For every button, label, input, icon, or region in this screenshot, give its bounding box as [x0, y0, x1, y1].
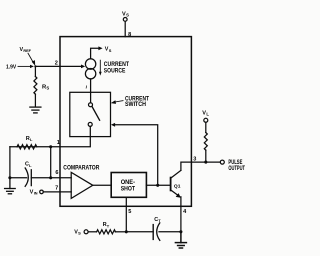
wire comparator to one-shot [93, 184, 111, 186]
wire left column RL to CL [9, 147, 11, 178]
svg-text:7: 7 [55, 185, 58, 191]
label CT [154, 217, 161, 223]
resistor RS [34, 66, 37, 106]
label RT [103, 222, 110, 228]
pin 7 [55, 185, 58, 191]
svg-text:I: I [86, 85, 88, 90]
label RS [42, 84, 49, 90]
wire node to current source (pin 2) [35, 65, 85, 69]
leader CURRENT SWITCH to box [111, 100, 123, 104]
node VREF/1.9V [34, 65, 36, 67]
IC outline box [60, 37, 191, 207]
label VL [202, 111, 209, 117]
current switch box [70, 92, 111, 136]
label Q1 [174, 184, 181, 190]
label CL [25, 162, 32, 168]
label CURRENT SOURCE [104, 62, 129, 75]
label COMPARATOR [63, 165, 100, 171]
svg-text:IN: IN [34, 191, 38, 195]
svg-text:8: 8 [128, 32, 131, 38]
label PULSE OUTPUT [228, 160, 245, 172]
leader VREF to node [28, 53, 35, 66]
ground RS [30, 107, 41, 113]
svg-text:SHOT: SHOT [121, 186, 136, 192]
wire current source to VS arrow [91, 46, 103, 58]
label VS top [122, 12, 129, 18]
switch contacts and lever [88, 103, 99, 127]
capacitor CL [10, 168, 71, 186]
wire switch bottom to pin 1 node [10, 126, 90, 146]
comparator A1 [71, 172, 93, 198]
svg-text:2: 2 [55, 60, 58, 66]
svg-text:Q1: Q1 [174, 184, 181, 190]
current source U-CS [85, 59, 95, 79]
wire one-shot output to Q1 base [146, 184, 169, 186]
svg-text:S: S [46, 86, 49, 91]
label VREF [20, 47, 32, 53]
terminal VS top [123, 18, 127, 22]
svg-text:L: L [29, 163, 32, 168]
label I [86, 85, 88, 90]
pin 3 [193, 157, 196, 163]
capacitor CT [126, 223, 181, 241]
terminal pulse output [220, 160, 224, 164]
label 1.9V [6, 64, 17, 70]
pin 6 [55, 170, 58, 176]
junction dot R1 node [49, 145, 52, 148]
svg-text:PULSE: PULSE [228, 160, 242, 166]
svg-text:OUTPUT: OUTPUT [228, 166, 245, 172]
terminal VIN [40, 190, 44, 194]
svg-text:REF: REF [23, 49, 31, 53]
junction dot RT/CT node [125, 230, 128, 233]
svg-text:COMPARATOR: COMPARATOR [63, 165, 100, 171]
arrow 1.9V to node [18, 65, 34, 68]
ground CT [175, 232, 186, 248]
svg-text:ONE-: ONE- [121, 180, 135, 186]
svg-text:3: 3 [193, 157, 196, 163]
label VS internal [105, 47, 112, 53]
pin 8 [128, 32, 131, 38]
svg-text:L: L [206, 112, 209, 117]
pin 1 [57, 140, 60, 146]
svg-text:CURRENT: CURRENT [104, 62, 129, 68]
resistor RL [17, 145, 37, 149]
wire Q1 emitter to pin 4 / ground [180, 197, 182, 232]
current direction arrow [99, 60, 102, 75]
svg-text:6: 6 [55, 170, 58, 176]
label RL [26, 136, 33, 142]
svg-text:S: S [126, 13, 129, 18]
wire Q1 collector to pin 3 / pulse output [181, 162, 221, 170]
svg-text:SWITCH: SWITCH [125, 102, 146, 108]
pin 4 [183, 209, 187, 215]
wire VIN to comparator [43, 191, 71, 193]
wire feedback to current switch [111, 123, 158, 185]
pin 5 [128, 209, 131, 215]
svg-text:SOURCE: SOURCE [104, 69, 126, 75]
wire one-shot bottom to pin 5 node [125, 197, 127, 232]
svg-text:5: 5 [128, 209, 131, 215]
svg-text:S: S [78, 230, 81, 235]
pin 2 [55, 60, 58, 66]
resistor RT [88, 230, 126, 234]
wire RL node down to CL node [50, 147, 52, 178]
svg-text:1.9V: 1.9V [6, 64, 17, 70]
label CURRENT SWITCH [125, 96, 149, 108]
terminal VL [204, 118, 208, 122]
one-shot block [111, 173, 146, 198]
wire VS top to box pin 8 [124, 21, 126, 36]
svg-text:1: 1 [57, 140, 60, 146]
junction dot CL left / ground [8, 176, 11, 179]
junction dot one-shot output [156, 184, 159, 187]
svg-text:T: T [158, 218, 161, 223]
svg-text:T: T [107, 223, 110, 228]
label VIN [30, 189, 38, 195]
wire current source to switch [90, 79, 92, 103]
svg-text:S: S [109, 48, 112, 53]
label ONE-SHOT [121, 180, 136, 192]
junction dot pulse output node [204, 161, 207, 164]
transistor Q1 [171, 170, 181, 197]
svg-text:4: 4 [183, 209, 187, 215]
svg-text:L: L [30, 137, 33, 142]
label VS bottom [74, 229, 81, 235]
junction dot CT right / ground [179, 230, 182, 233]
ground CL [5, 178, 16, 194]
terminal VS bottom [84, 230, 88, 234]
resistor pull-up on VL [204, 122, 207, 162]
junction dot CL right node [49, 176, 52, 179]
